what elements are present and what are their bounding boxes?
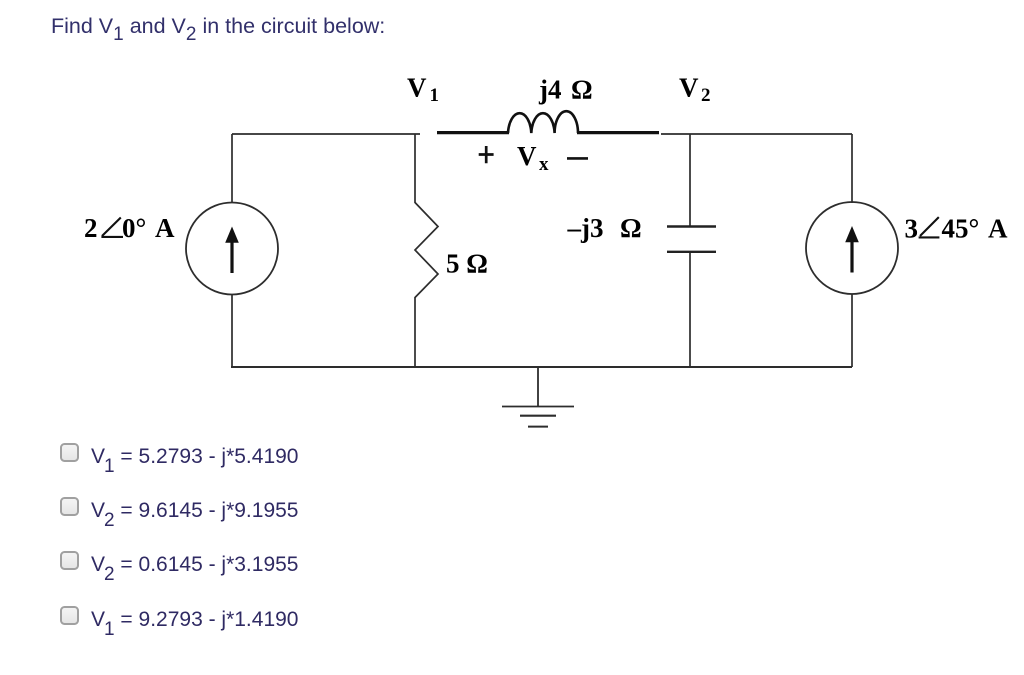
source I1 value 2∠0° A xyxy=(84,213,175,243)
inductor L1 lead right (thick) xyxy=(577,131,659,134)
svg-text:Ω: Ω xyxy=(571,75,593,105)
Vx label xyxy=(517,141,549,175)
svg-text:V: V xyxy=(679,73,699,103)
source I2 angle symbol xyxy=(919,217,940,237)
node V1 label xyxy=(407,73,439,107)
svg-text:0°: 0° xyxy=(122,213,146,243)
checkbox 4 xyxy=(60,606,79,625)
answer option 4 xyxy=(58,606,60,634)
answer option 2 xyxy=(58,497,60,525)
checkbox 3 xyxy=(60,551,79,570)
ground xyxy=(502,367,574,427)
resistor R1 value 5 Ω xyxy=(446,249,488,279)
svg-text:2: 2 xyxy=(84,213,98,243)
inductor L1 coils xyxy=(508,111,578,133)
wire V1 node vertical upper xyxy=(414,134,416,203)
inductor L1 lead left (thick) xyxy=(437,131,509,134)
wire top-right horizontal xyxy=(661,133,852,135)
current source I2 circle xyxy=(806,202,898,294)
wire capacitor branch upper xyxy=(689,134,691,226)
checkbox 2 xyxy=(60,497,79,516)
wire bottom horizontal xyxy=(231,366,852,368)
current source I1 arrow xyxy=(225,227,239,274)
source I1 angle symbol xyxy=(101,218,123,237)
question title xyxy=(51,14,385,39)
svg-text:A: A xyxy=(155,213,175,243)
wire V1 node vertical lower xyxy=(414,297,416,367)
wire left vertical lower xyxy=(231,294,233,367)
capacitor C1 plates xyxy=(667,227,716,252)
svg-text:Ω: Ω xyxy=(620,213,642,243)
answer option 1 xyxy=(58,443,60,471)
svg-text:5 Ω: 5 Ω xyxy=(446,249,488,279)
current source I2 arrow xyxy=(845,226,859,273)
wire left vertical upper xyxy=(231,134,233,203)
source I2 value 3∠45° A xyxy=(905,214,1009,244)
inductor value label j4 Ω xyxy=(538,75,593,105)
wire right vertical upper xyxy=(851,134,853,203)
wire right vertical lower xyxy=(851,294,853,367)
Vx polarity minus xyxy=(567,157,588,160)
svg-text:3: 3 xyxy=(905,214,919,244)
svg-text:1: 1 xyxy=(430,85,440,106)
svg-text:V: V xyxy=(517,141,537,171)
svg-text:x: x xyxy=(539,154,549,175)
answer option 3 xyxy=(58,551,60,579)
wire capacitor branch lower xyxy=(689,252,691,367)
resistor R1 zigzag xyxy=(415,203,438,298)
svg-text:2: 2 xyxy=(701,85,711,106)
current source I1 circle xyxy=(186,203,278,295)
svg-text:A: A xyxy=(988,214,1008,244)
svg-text:j4: j4 xyxy=(538,75,562,105)
svg-text:V: V xyxy=(407,73,427,103)
Vx polarity plus xyxy=(479,146,494,163)
wire top-left horizontal xyxy=(232,133,420,135)
checkbox 1 xyxy=(60,443,79,462)
capacitor C1 value −j3 Ω xyxy=(567,213,642,243)
node V2 label xyxy=(679,73,711,107)
svg-text:–j3: –j3 xyxy=(567,213,604,243)
svg-text:45°: 45° xyxy=(942,214,980,244)
